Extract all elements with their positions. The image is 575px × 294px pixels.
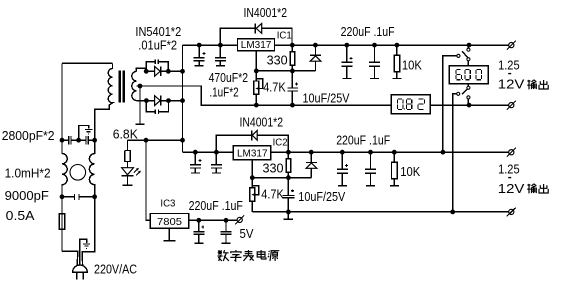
wire 5V rail xyxy=(189,219,238,221)
node rail at S2 xyxy=(467,103,472,108)
switch S2 bottom xyxy=(462,84,468,106)
node meter wire ch2 minus xyxy=(450,210,455,215)
svg-text:10uF/25V: 10uF/25V xyxy=(303,91,351,105)
svg-text:220uF .1uF: 220uF .1uF xyxy=(189,199,244,213)
node 220uF ch1 xyxy=(344,43,349,48)
svg-text:LM317: LM317 xyxy=(241,39,272,51)
regulator IC3 7805 xyxy=(150,214,188,229)
terminal ch1 plus xyxy=(509,43,514,48)
node 470uF ch1 xyxy=(197,43,202,48)
node ADJ ch1 xyxy=(254,69,259,74)
wire top lead to transformer primary xyxy=(62,62,113,64)
seven segment digits 6.00 xyxy=(456,69,482,79)
plug P1 xyxy=(73,265,88,272)
meter display 6.00 xyxy=(449,66,488,84)
plus 10uF ch2 xyxy=(291,189,294,192)
wire rectifier diode row 2 xyxy=(146,100,182,102)
node 4.7K bottom ch1 xyxy=(254,103,259,108)
svg-text:470uF*2: 470uF*2 xyxy=(209,71,248,85)
svg-text:1.25: 1.25 xyxy=(498,58,520,72)
capacitor 220uF ch1 out xyxy=(341,45,352,78)
node 220uF 5V xyxy=(196,218,201,223)
svg-text:IC1: IC1 xyxy=(277,29,292,41)
svg-text:IC2: IC2 xyxy=(273,137,288,149)
node 330 top ch1 xyxy=(290,43,295,48)
node 9000pF right xyxy=(92,194,97,199)
plus 10uF ch1 xyxy=(295,83,298,86)
svg-text:2800pF*2: 2800pF*2 xyxy=(2,129,55,143)
wire ADJ row ch2 xyxy=(252,160,311,178)
terminal ch2 plus xyxy=(509,150,514,155)
svg-text:6.8K: 6.8K xyxy=(113,127,139,141)
svg-text:9000pF: 9000pF xyxy=(5,189,50,203)
plus 220uF ch1 xyxy=(350,57,353,60)
wire 7805 input xyxy=(146,140,150,220)
node 2800pF left xyxy=(60,138,65,143)
node 10K ch1 xyxy=(395,43,400,48)
node V+ at 6.8K line xyxy=(180,138,185,143)
wire secondary top tap xyxy=(136,68,146,71)
label shuchu ch2 (output) xyxy=(527,184,548,194)
LED xyxy=(127,162,129,168)
node 7805 feed tap xyxy=(144,138,149,143)
node 470uF ch2 xyxy=(193,150,198,155)
wire IN4001 bypass loop ch1 xyxy=(220,28,292,45)
svg-text:4.7K: 4.7K xyxy=(263,81,286,95)
node D2 cathode xyxy=(166,98,171,103)
wire ADJ row ch1 xyxy=(256,51,315,71)
svg-text:1.25: 1.25 xyxy=(498,162,520,176)
CJK text blocks placeholder xyxy=(218,80,549,261)
plus 470uF ch2 xyxy=(199,159,202,162)
diode D1 IN5401 xyxy=(155,66,161,76)
wire ch2 V+ rail xyxy=(183,151,509,153)
transformer T1 secondary winding xyxy=(132,71,137,100)
node D1 anode xyxy=(144,69,149,74)
svg-text:.1uF*2: .1uF*2 xyxy=(209,86,238,100)
node .1uF ch2 xyxy=(214,150,219,155)
diode protect ch2 xyxy=(306,152,317,178)
svg-text:12V: 12V xyxy=(498,182,525,196)
node .1uF ch1 xyxy=(218,43,223,48)
meter display 0.82 xyxy=(391,95,430,114)
node 2800pF mid xyxy=(76,138,81,143)
wire AC right down to plug xyxy=(82,197,95,265)
svg-text:220uF .1uF: 220uF .1uF xyxy=(341,25,395,39)
wire rectified V+ vertical bus xyxy=(182,45,184,152)
capacitor .1uF ch1 input xyxy=(215,45,226,66)
svg-text:12V: 12V xyxy=(498,78,525,92)
capacitor .1uF ch1 out xyxy=(369,45,380,78)
earth wire and ground at plug xyxy=(80,239,87,265)
diode IN4001 bypass ch1 xyxy=(254,24,256,34)
svg-text:0.5A: 0.5A xyxy=(6,209,36,223)
node 220uF ch2 xyxy=(340,150,345,155)
node 2800pF right xyxy=(92,138,97,143)
node center tap xyxy=(138,84,143,89)
diode protect ch1 xyxy=(310,45,321,71)
svg-text:10uF/25V: 10uF/25V xyxy=(298,190,346,204)
svg-text:.01uF*2: .01uF*2 xyxy=(138,39,177,53)
label dash ch1 xyxy=(508,73,511,75)
inductor L1 1.0mH left winding xyxy=(62,140,67,197)
resistor 10K ch1 xyxy=(396,45,398,55)
resistor 10K ch2 xyxy=(393,152,395,162)
node .1uF ch1 out xyxy=(372,43,377,48)
svg-text:IN4001*2: IN4001*2 xyxy=(240,115,284,129)
potentiometer 4.7K ch1 xyxy=(255,71,257,81)
node D1 cathode xyxy=(166,69,171,74)
capacitor .01uF across D2 xyxy=(146,101,168,115)
regulator IC2 LM317 xyxy=(233,146,271,160)
svg-text:LM317: LM317 xyxy=(237,147,268,159)
transformer T1 core xyxy=(120,71,124,103)
label digital meter power (shuzibiao dianyuan) xyxy=(218,250,280,261)
potentiometer 4.7K ch2 xyxy=(251,178,253,188)
svg-text:IN5401*2: IN5401*2 xyxy=(135,25,181,39)
switch S1 top xyxy=(462,45,468,66)
terminal ch1 minus xyxy=(509,103,514,108)
capacitor .1uF ch2 input xyxy=(211,152,222,173)
label dash ch2 xyxy=(508,177,511,179)
node prot diode top ch1 xyxy=(313,43,318,48)
svg-text:220V/AC: 220V/AC xyxy=(94,262,137,276)
plus 220uF 5V xyxy=(201,226,204,229)
svg-text:10K: 10K xyxy=(402,59,423,73)
node 9000pF left xyxy=(60,194,65,199)
node 330 bottom ch1 xyxy=(290,69,295,74)
capacitor 220uF ch2 out xyxy=(337,152,348,185)
wire secondary center tap to ch1 ground rail xyxy=(136,86,391,105)
seven segment digits 0.82 xyxy=(397,99,424,109)
ground 7805 xyxy=(163,228,175,240)
transformer T1 primary winding xyxy=(95,63,113,140)
inductor L2 1.0mH right winding xyxy=(89,140,94,197)
plus 470uF ch1 xyxy=(203,52,206,55)
ground center-tap bar xyxy=(136,86,145,124)
regulator IC1 LM317 xyxy=(238,39,275,51)
node meter wire ch2 plus xyxy=(441,150,446,155)
svg-text:4.7K: 4.7K xyxy=(261,187,284,201)
capacitor .1uF 5V xyxy=(221,220,232,243)
capacitor 220uF 5V xyxy=(193,220,204,243)
wire AC left vertical from top lead down to filter cap row xyxy=(61,63,63,140)
LED arrows xyxy=(134,169,140,176)
ground ch2 xyxy=(284,212,293,220)
node 10K ch2 xyxy=(392,150,397,155)
diode IN4001 bypass ch2 xyxy=(251,130,253,140)
svg-text:IN4001*2: IN4001*2 xyxy=(244,6,288,20)
svg-text:10K: 10K xyxy=(400,165,421,179)
node ADJ ch2 xyxy=(250,175,255,180)
ground hook of 2800pF midpoint xyxy=(79,126,89,141)
wire ch1 V+ rail xyxy=(183,44,509,46)
capacitor .1uF ch2 out xyxy=(365,152,376,185)
svg-text:1.0mH*2: 1.0mH*2 xyxy=(5,166,51,180)
capacitor 470uF ch1 input xyxy=(194,45,205,66)
wire 6.8K feed line xyxy=(128,139,183,141)
resistor 330 ch1 xyxy=(291,45,293,52)
svg-text:5V: 5V xyxy=(240,227,255,241)
node 330 top ch2 xyxy=(286,150,291,155)
EMI filter capacitors 2800pF*2 row xyxy=(62,136,95,145)
node 10uF bottom ch2 / ground stub xyxy=(286,210,291,215)
diode D2 IN5401 xyxy=(155,96,161,106)
wire AC bottom left into plug xyxy=(62,251,78,265)
svg-text:330: 330 xyxy=(267,54,288,68)
plus 220uF ch2 xyxy=(345,164,348,167)
resistor 330 ch2 xyxy=(287,152,289,159)
capacitor 10uF/25V ch2 xyxy=(282,178,294,212)
wire IN4001 bypass loop ch2 xyxy=(216,135,288,152)
wire ch1 ground rail right part xyxy=(430,104,508,106)
svg-text:220uF .1uF: 220uF .1uF xyxy=(336,133,390,147)
node rectifier output top xyxy=(180,69,185,74)
node rail at S1 xyxy=(467,43,472,48)
node .1uF 5V xyxy=(224,218,229,223)
terminal ch2 minus xyxy=(509,209,514,214)
wire meter select to ch2 plus xyxy=(443,56,457,152)
node rectifier output bottom xyxy=(180,98,185,103)
wire secondary bottom tap xyxy=(136,100,146,102)
wire meter select to ch2 minus xyxy=(453,94,457,212)
node prot diode top ch2 xyxy=(309,150,314,155)
capacitor 9000pF xyxy=(62,194,95,200)
capacitor .01uF across D1 xyxy=(146,59,168,71)
choke core circle xyxy=(70,165,86,181)
resistor 6.8K xyxy=(125,140,130,161)
svg-text:7805: 7805 xyxy=(157,216,182,228)
node 10uF bottom ch1 xyxy=(290,103,295,108)
terminal 5V output xyxy=(237,217,242,222)
capacitor 470uF ch2 input xyxy=(190,152,201,173)
wire ch2 ground rail xyxy=(252,211,508,213)
label shuchu ch1 (output) xyxy=(527,80,548,90)
node 330 bottom ch2 xyxy=(286,175,291,180)
svg-text:330: 330 xyxy=(263,162,284,176)
svg-text:IC3: IC3 xyxy=(160,198,175,210)
fuse 0.5A xyxy=(61,197,63,252)
wire rectifier diode row 1 xyxy=(146,70,182,72)
capacitor 10uF/25V ch1 xyxy=(288,71,298,105)
node D2 anode xyxy=(144,98,149,103)
node .1uF ch2 out xyxy=(368,150,373,155)
